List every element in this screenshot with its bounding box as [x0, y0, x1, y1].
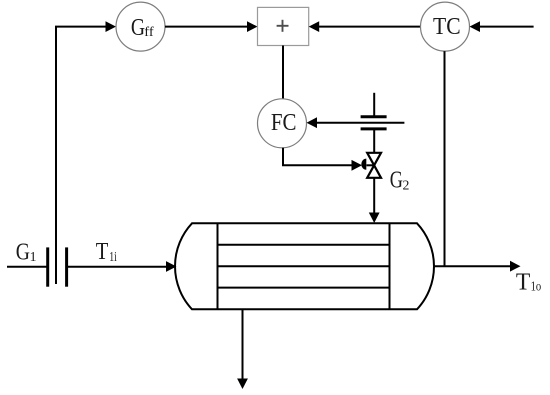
svg-text:1: 1: [30, 249, 37, 264]
arrowhead into exchanger top: [369, 213, 380, 224]
feed line to exchanger: [67, 266, 167, 268]
orifice plates on steam line: [361, 117, 387, 129]
controller Gff: [116, 2, 165, 51]
label G1: [16, 239, 37, 265]
steam pipe valve to exchanger: [373, 178, 375, 214]
svg-text:T: T: [516, 269, 531, 295]
arrowhead into summer (right): [309, 21, 320, 32]
svg-text:ff: ff: [144, 24, 154, 39]
svg-text:G: G: [131, 15, 145, 41]
label T1o: [516, 269, 541, 295]
svg-text:1i: 1i: [109, 249, 117, 264]
valve actuator cup: [361, 159, 366, 170]
arrowhead into summer (left): [247, 21, 258, 32]
arrowhead into FC: [307, 117, 318, 128]
arrowhead bottom outlet: [237, 379, 248, 390]
wire: feed-orifice impulse line up and right to Gff: [56, 27, 106, 284]
wire steam-orifice impulse to FC: [316, 122, 404, 124]
summer block +: [258, 7, 309, 45]
controller TC: [421, 2, 470, 51]
feed line G1 left segment: [7, 266, 48, 268]
control valve body: [367, 153, 381, 178]
wire TC to summer: [318, 26, 421, 28]
label G2: [390, 167, 410, 193]
svg-text:G: G: [390, 167, 403, 193]
arrowhead into Gff: [106, 21, 117, 32]
right tube sheet: [389, 223, 391, 309]
arrowhead at valve actuator: [352, 160, 363, 171]
arrowhead outlet: [510, 261, 521, 272]
svg-text:TC: TC: [433, 14, 461, 40]
svg-text:T: T: [96, 239, 109, 265]
wire Gff to summer: [165, 26, 248, 28]
svg-text:2: 2: [403, 177, 410, 192]
svg-text:1o: 1o: [531, 279, 542, 294]
svg-text:G: G: [16, 239, 30, 265]
outlet line to the right: [434, 265, 512, 267]
arrowhead into TC: [470, 21, 481, 32]
wire FC output to valve: [283, 148, 352, 166]
steam pipe between orifice and valve: [373, 129, 375, 153]
bottom outlet line: [242, 309, 244, 379]
feed orifice plates: [48, 247, 67, 286]
steam pipe G2 upper segment: [373, 93, 375, 117]
TC sensing line from outlet pipe: [444, 51, 446, 266]
heat exchanger shell: [175, 223, 434, 309]
tube line 1: [218, 244, 390, 246]
tube line 3: [218, 287, 390, 289]
label T1i: [96, 239, 117, 265]
valve stem link: [367, 164, 375, 166]
wire summer to FC: [282, 46, 284, 99]
arrowhead into exchanger left: [166, 261, 177, 272]
controller FC: [258, 99, 307, 148]
tube line 2: [218, 265, 390, 267]
svg-text:FC: FC: [271, 110, 297, 136]
wire setpoint into TC: [479, 26, 534, 28]
left tube sheet: [217, 223, 219, 309]
